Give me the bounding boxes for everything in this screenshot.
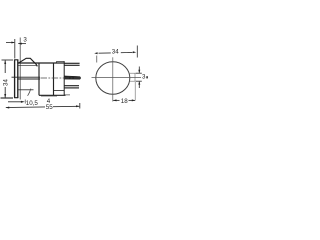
svg-text:18: 18: [121, 98, 128, 105]
svg-text:34: 34: [2, 79, 9, 86]
svg-text:10,5: 10,5: [26, 100, 39, 107]
svg-text:34: 34: [112, 49, 119, 56]
svg-text:3: 3: [23, 36, 27, 43]
svg-text:3: 3: [142, 73, 146, 80]
svg-text:55: 55: [46, 104, 53, 111]
